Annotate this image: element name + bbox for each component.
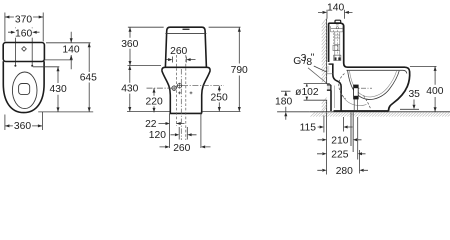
cistern side: lid and body [329, 23, 405, 67]
svg-text:360: 360 [14, 121, 31, 132]
wire: G3/8 leader [314, 66, 327, 72]
dimension ø102 [306, 84, 308, 101]
flush button diamond [22, 47, 27, 52]
drain hole rounded square [19, 84, 30, 95]
dimension 140 top: ticks [327, 10, 344, 19]
svg-text:250: 250 [211, 92, 228, 103]
trap dashed lines [339, 74, 346, 99]
pedestal bottom [334, 110, 389, 112]
dimension 120 [171, 134, 197, 136]
lid button [335, 20, 341, 23]
node: hole cross marks [178, 92, 192, 95]
wire: 360 extension ticks [5, 112, 43, 130]
wire: tank-top level extension lines [128, 26, 241, 28]
dimension 210 [318, 139, 362, 141]
dimension 180 [285, 91, 287, 120]
label 120 [148, 130, 168, 141]
outlet stub section [354, 85, 359, 99]
dimension 140 arrows [318, 11, 353, 13]
bowl basin inner wall [349, 71, 396, 97]
label 35 [407, 89, 421, 100]
wire: outlet verticals to floor [354, 99, 357, 111]
bowl inner rim line [347, 70, 407, 73]
tank internals: dashed [334, 30, 338, 55]
label 180 [274, 96, 294, 107]
svg-text:645: 645 [80, 73, 97, 84]
label 280 [334, 165, 354, 176]
floor hatching [311, 112, 450, 116]
cistern tank (front) [165, 27, 206, 67]
bowl basin line [348, 71, 400, 100]
wire: bottom extension verticals [170, 112, 201, 148]
svg-text:160: 160 [15, 28, 32, 39]
svg-text:180: 180 [275, 97, 292, 108]
G3/8 label [293, 53, 314, 69]
label ø102 [294, 87, 319, 98]
wire: floor extension to left [277, 111, 310, 113]
svg-text:260: 260 [173, 143, 190, 154]
wire: 180 top reference tick [281, 90, 291, 92]
dimension 790 [238, 27, 240, 111]
svg-text:120: 120 [149, 130, 166, 141]
dimension 22 [159, 123, 185, 125]
outlet stub into wall [327, 85, 331, 90]
dimension 225 [317, 153, 366, 155]
svg-text:22: 22 [145, 119, 157, 130]
dimension 140 (tank depth) [70, 32, 72, 70]
trap inner thin line [333, 86, 335, 109]
dimension 645 (overall) [88, 43, 90, 112]
wire: tank bolt dashed lines [176, 55, 178, 126]
node: pipe bore tint [327, 86, 331, 90]
wire: rim level extension [410, 65, 437, 67]
wire: supply diagonal to wall [308, 68, 327, 84]
label 360 middle [120, 38, 140, 50]
wire: below-floor extension ticks [324, 113, 360, 175]
label 115 [298, 122, 318, 133]
svg-text:225: 225 [331, 149, 348, 160]
wire: bottom reference line [38, 111, 93, 113]
dimension 400 [434, 66, 436, 111]
35 reference line [400, 108, 419, 110]
bowl left side [162, 71, 170, 114]
wire: top reference line (tank top level) to right [46, 42, 91, 44]
label 645 [78, 72, 98, 83]
pedestal bottom [169, 112, 202, 114]
dimension 260 bottom [160, 146, 211, 148]
node: inlet dashes behind tank [327, 67, 329, 71]
cistern tank outline (top view) [3, 43, 44, 62]
wire: inlet level line [327, 73, 333, 75]
label 360 bottom [13, 121, 32, 132]
label 430 middle [120, 83, 140, 94]
svg-text:140: 140 [62, 44, 79, 55]
svg-text:": " [311, 53, 315, 64]
label 22 [143, 119, 158, 130]
dimension 35 [413, 100, 415, 105]
wire: seat level reference (430 top) [128, 65, 162, 67]
wire: floor reference line [127, 111, 241, 113]
interior passage thin [342, 94, 367, 106]
label 140 [61, 44, 81, 55]
dimension 250 [218, 86, 220, 112]
seat ring oval [12, 72, 37, 109]
dimension 360 (tank top to seat) [129, 27, 131, 65]
tank bottom stub [329, 63, 334, 65]
label 160 [14, 28, 33, 39]
dimension 160 arrows outside [8, 31, 40, 33]
dimension 360 line [5, 125, 43, 127]
label 370 [14, 14, 33, 26]
dimension ø102: reference lines [304, 84, 330, 101]
svg-text:260: 260 [170, 46, 187, 57]
svg-text:400: 400 [426, 86, 443, 97]
label 210 [330, 135, 350, 146]
bowl right side [202, 71, 210, 114]
label 790 [229, 65, 249, 76]
svg-text:280: 280 [336, 166, 353, 177]
trap S outer wall [333, 64, 341, 111]
svg-text:220: 220 [146, 97, 163, 108]
dimension 280 [317, 169, 368, 171]
svg-text:35: 35 [408, 89, 420, 100]
svg-text:790: 790 [231, 65, 248, 76]
wall hatching [322, 18, 327, 113]
svg-text:ø102: ø102 [295, 87, 319, 98]
label 260 tank [169, 46, 189, 57]
wire: pedestal dash-dot centerline [180, 69, 182, 140]
tank internals: fill valve [331, 25, 343, 61]
wire: hinge reference line [45, 59, 73, 61]
svg-text:210: 210 [331, 135, 348, 146]
dimension 115 [317, 126, 353, 128]
tank internals: dark bits [334, 57, 340, 60]
node: fixing holes [172, 84, 182, 91]
svg-text:370: 370 [15, 14, 32, 25]
wire: 160 extension lines down to hinge dots [15, 28, 32, 66]
svg-text:430: 430 [121, 84, 138, 95]
dimension 370 arrows [5, 16, 43, 19]
water line dashes [352, 87, 372, 89]
lid joint line [165, 33, 206, 35]
wire: drain pipe below floor [351, 112, 353, 152]
dimension 260 tank holes: ticks [172, 57, 186, 63]
label 225 [330, 149, 350, 160]
label 260 bottom [172, 143, 192, 154]
wire: 370 extension lines [5, 13, 43, 42]
flush button on lid [183, 28, 190, 30]
wall line [326, 19, 328, 112]
svg-text:115: 115 [300, 123, 317, 134]
label 400 [425, 86, 445, 97]
dimension 430 middle [129, 66, 131, 112]
bowl outer outline [3, 61, 44, 112]
node: crosses in holes [171, 83, 182, 91]
svg-text:430: 430 [50, 84, 67, 95]
dimension 260 arrows [167, 59, 196, 61]
wire: hole centerlines dash-dot [147, 87, 172, 89]
pedestal back [330, 90, 332, 111]
svg-text:140: 140 [327, 3, 344, 14]
label 430 left [48, 84, 68, 95]
floor line [310, 111, 450, 113]
wire: seat-back reference line (430 top) [33, 66, 59, 68]
node: hinge dots [14, 65, 33, 67]
seat bar (front) [162, 67, 210, 71]
svg-text:360: 360 [121, 39, 138, 50]
dimension 370 line [5, 16, 43, 18]
dimension 220 [153, 88, 155, 112]
label 220 [145, 96, 164, 107]
dimension 430 (left view) [57, 67, 59, 112]
label 250 [209, 92, 229, 103]
bowl front profile [389, 67, 410, 111]
